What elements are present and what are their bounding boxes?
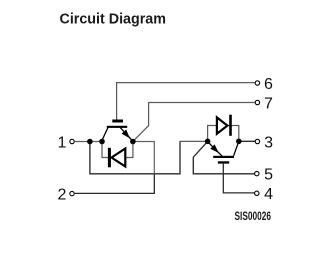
transistor Q2 channel bar bbox=[213, 156, 234, 158]
svg-text:2: 2 bbox=[58, 187, 67, 204]
transistor Q1 channel bar bbox=[107, 126, 127, 128]
junction node A1 bbox=[87, 139, 93, 145]
terminal pin 5 bbox=[255, 171, 259, 175]
wire pin6 to Q1 gate bbox=[117, 83, 255, 120]
svg-text:6: 6 bbox=[264, 76, 273, 93]
svg-text:3: 3 bbox=[264, 134, 273, 151]
transistor Q1 source lead bbox=[120, 127, 133, 141]
junction node A2 bbox=[99, 139, 105, 145]
terminal pin 3 bbox=[255, 139, 259, 143]
junction node C1 bbox=[205, 139, 211, 145]
diode D1 cathode bar bbox=[108, 148, 111, 168]
svg-text:Circuit Diagram: Circuit Diagram bbox=[60, 12, 166, 28]
wire pin3 bbox=[239, 140, 255, 142]
terminal pin 7 bbox=[255, 100, 259, 104]
diode D2 cathode bar bbox=[229, 115, 232, 136]
terminal pin 6 bbox=[255, 81, 259, 85]
diode D2 triangle bbox=[217, 117, 228, 133]
svg-text:SIS00026: SIS00026 bbox=[235, 211, 272, 223]
transistor Q2 source arrow bbox=[210, 144, 219, 153]
transistor Q1 drain lead bbox=[102, 128, 108, 141]
junction node B bbox=[130, 139, 136, 145]
transistor Q2 drain lead bbox=[234, 142, 239, 156]
wire Q2 source to pin5 bbox=[193, 141, 254, 173]
diode D1 triangle bbox=[112, 149, 126, 167]
transistor Q2 source lead bbox=[208, 142, 222, 156]
wire node1 to Q2 source (phase link) bbox=[90, 141, 180, 174]
transistor Q1 source arrow bbox=[122, 130, 130, 139]
terminal pin 4 bbox=[255, 191, 259, 195]
terminal pin 1 bbox=[70, 139, 74, 143]
wire Q2 gate to pin4 bbox=[223, 164, 254, 193]
junction node C2 bbox=[236, 139, 242, 145]
wire pin1 bbox=[75, 141, 101, 143]
wire diode D1 loop bbox=[102, 142, 133, 158]
wire Q1 source node to pin2 riser bbox=[133, 142, 154, 175]
terminal pin 2 bbox=[70, 191, 74, 195]
wire Q1 source to pin2 bbox=[75, 174, 154, 194]
wire diode D2 loop bbox=[208, 126, 239, 142]
svg-text:1: 1 bbox=[58, 134, 67, 151]
wire pin7 to Q1 source node bbox=[133, 103, 255, 142]
svg-text:5: 5 bbox=[264, 166, 273, 183]
svg-text:4: 4 bbox=[264, 186, 273, 203]
svg-text:7: 7 bbox=[264, 95, 273, 112]
transistor Q2 gate bar bbox=[218, 161, 229, 163]
transistor Q1 gate bar bbox=[112, 120, 123, 123]
